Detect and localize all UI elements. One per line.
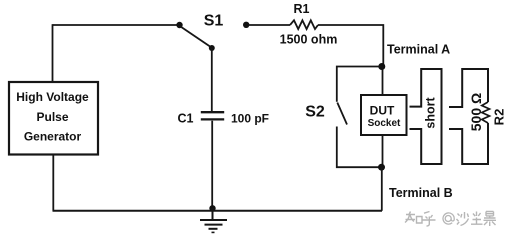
wire left vertical to generator: [52, 24, 54, 82]
S1 arm: [181, 27, 212, 48]
watermark char sha: [457, 212, 469, 226]
resistor R1 zigzag: [290, 20, 318, 29]
wire top-left horizontal: [53, 24, 178, 26]
svg-text:500 Ω: 500 Ω: [468, 93, 484, 131]
label High Voltage Pulse Generator: [16, 90, 89, 144]
wire S2 top horizontal: [337, 67, 382, 102]
svg-text:Socket: Socket: [368, 118, 401, 129]
watermark char zhi: [405, 212, 415, 223]
watermark char bao: [484, 212, 497, 227]
C1 top plate: [201, 111, 224, 113]
svg-text:High Voltage: High Voltage: [16, 90, 89, 104]
svg-text:Generator: Generator: [24, 130, 82, 144]
switch S2 arm: [337, 103, 347, 125]
short box (socket jaw facing left): [410, 69, 442, 164]
svg-text:1500 ohm: 1500 ohm: [280, 33, 338, 47]
switch S1: [176, 13, 249, 52]
wire Terminal B down to rail: [381, 167, 383, 211]
watermark char chen: [471, 212, 483, 225]
svg-text:100 pF: 100 pF: [231, 111, 269, 125]
node: S1 left contact dot: [176, 22, 182, 28]
C1 bottom plate: [201, 118, 224, 120]
capacitor C1: [201, 48, 224, 211]
wire generator bottom vertical: [52, 155, 54, 211]
svg-text:C1: C1: [178, 112, 194, 126]
node ground junction dot: [209, 205, 215, 211]
node Terminal B dot: [378, 164, 385, 171]
DUT socket box: [361, 95, 407, 135]
wire S1 pole down to C1: [211, 48, 213, 111]
node: S1 right contact dot: [243, 22, 249, 28]
svg-text:short: short: [424, 97, 438, 129]
svg-text:Terminal B: Terminal B: [389, 186, 453, 200]
watermark char at: [443, 213, 454, 224]
wire bottom ground rail: [53, 210, 383, 212]
ground symbol: [200, 208, 227, 232]
500 ohm load box R2 (socket jaw facing left, zigzag right edge): [449, 69, 490, 164]
High Voltage Pulse Generator box: [9, 82, 98, 155]
node Terminal A dot: [378, 63, 385, 70]
wire S2 bottom to Terminal B: [337, 127, 382, 168]
wire Terminal A down to DUT box: [382, 67, 384, 96]
svg-text:S1: S1: [204, 13, 224, 30]
svg-text:R1: R1: [294, 2, 310, 16]
wire R1 to corner, down to Terminal A: [318, 25, 383, 66]
watermark char hu: [423, 212, 436, 227]
wire S1 right to R1: [249, 24, 291, 26]
svg-text:DUT: DUT: [370, 104, 395, 118]
node: S1 pole dot: [209, 45, 215, 51]
svg-text:Terminal A: Terminal A: [387, 43, 450, 57]
watermark zhihu: [405, 212, 496, 227]
wire DUT box bottom to Terminal B: [382, 135, 384, 167]
wire C1 to rail: [211, 121, 213, 211]
svg-text:S2: S2: [305, 104, 325, 121]
svg-text:Pulse: Pulse: [36, 110, 68, 124]
svg-text:R2: R2: [492, 109, 507, 126]
